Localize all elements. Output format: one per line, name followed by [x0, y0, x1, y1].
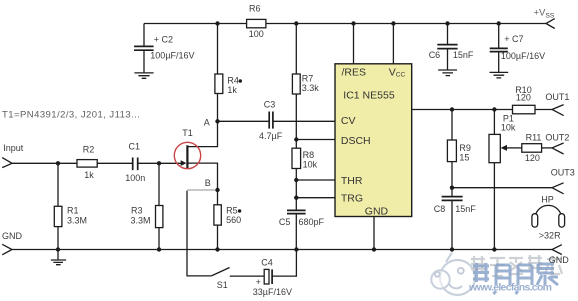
ground (C2): [134, 73, 153, 78]
resistor R3: [131, 163, 163, 249]
junction THR node: [294, 178, 298, 182]
resistor R7: [292, 74, 319, 94]
svg-text:/RES: /RES: [342, 66, 367, 78]
junction rail-/RES: [351, 21, 355, 25]
svg-text:R9: R9: [459, 143, 471, 153]
wire VCC pin: [392, 24, 394, 64]
svg-text:100: 100: [249, 29, 264, 39]
svg-text:1k: 1k: [84, 170, 94, 180]
svg-text:10k: 10k: [303, 159, 318, 169]
junction input-R1: [56, 161, 60, 165]
capacitor C8: [434, 188, 476, 250]
svg-text:Input: Input: [3, 143, 24, 153]
terminal OUT3: [551, 167, 575, 193]
wire C1 to gate node: [138, 162, 159, 164]
capacitor C1: [125, 142, 145, 183]
wire input: [12, 162, 77, 164]
wire DSCH pin: [296, 139, 335, 141]
svg-text:R2: R2: [83, 144, 95, 154]
svg-text:15nF: 15nF: [453, 50, 474, 60]
terminal OUT2: [545, 132, 569, 154]
wire R11 to OUT2: [542, 147, 552, 149]
terminal GND left: [2, 231, 23, 255]
resistor R1: [54, 163, 87, 249]
svg-text:THR: THR: [341, 175, 363, 187]
pin label VCC: [389, 66, 406, 78]
svg-text:120: 120: [525, 153, 540, 163]
potentiometer P1: [489, 110, 522, 250]
junction DSCH node: [294, 137, 298, 141]
svg-text:C4: C4: [261, 258, 273, 268]
svg-text:+V: +V: [534, 7, 547, 18]
wire supply rail left: [144, 23, 247, 25]
svg-text:3.3M: 3.3M: [131, 215, 151, 225]
svg-text:R6: R6: [249, 4, 261, 14]
resistor R10: [513, 85, 536, 114]
svg-text:15: 15: [459, 152, 469, 162]
ground (input): [51, 250, 66, 265]
capacitor C5: [279, 210, 325, 227]
wire R10 to OUT1: [535, 109, 552, 111]
junction gate-R3: [157, 161, 161, 165]
resistor R4: [215, 74, 242, 95]
svg-text:OUT1: OUT1: [545, 92, 569, 102]
junction rail-IC GND: [372, 247, 376, 251]
resistor R6: [247, 4, 266, 39]
svg-text:GND: GND: [365, 205, 389, 217]
svg-text:+ C2: + C2: [154, 35, 173, 45]
svg-text:CC: CC: [396, 71, 406, 78]
svg-text:OUT2: OUT2: [545, 132, 569, 142]
switch S1: [211, 268, 229, 291]
ground (C7): [490, 72, 509, 78]
resistor R2: [77, 144, 97, 180]
svg-text:+ C7: + C7: [504, 34, 523, 44]
svg-text:560: 560: [226, 215, 241, 225]
capacitor C6: [429, 24, 474, 70]
svg-text:+: +: [256, 277, 261, 287]
wire output pin3: [412, 109, 513, 111]
svg-text:CV: CV: [341, 115, 356, 127]
wire node B to S1 (gray): [187, 189, 215, 191]
wire R7 to R8: [295, 94, 297, 148]
svg-text:4.7µF: 4.7µF: [259, 131, 283, 141]
junction rail-R3: [157, 247, 161, 251]
svg-text:OUT3: OUT3: [551, 167, 575, 177]
svg-text:C6: C6: [429, 50, 441, 60]
junction rail-ground: [56, 247, 60, 251]
resistor R11: [522, 132, 542, 163]
junction rail-R5: [215, 247, 219, 251]
svg-text:R3: R3: [131, 206, 143, 216]
svg-text:R1: R1: [67, 206, 79, 216]
resistor R9: [447, 110, 471, 188]
wire IC GND pin: [373, 217, 375, 250]
svg-text:T1: T1: [182, 128, 193, 138]
highlight circle around T1: [174, 142, 200, 168]
wire R8 to C5: [295, 169, 297, 211]
wire /RES pin: [353, 24, 355, 64]
wire TRG pin: [296, 197, 335, 199]
junction TRG node: [294, 196, 298, 200]
svg-text:C3: C3: [264, 100, 276, 110]
wire supply rail right: [266, 23, 546, 25]
junction rail-C5: [294, 247, 298, 251]
svg-text:GND: GND: [2, 231, 23, 241]
junction rail-C8: [450, 247, 454, 251]
wire rail to R4: [217, 24, 219, 75]
svg-text:A: A: [204, 118, 210, 128]
headphone icon HP: [532, 194, 565, 240]
IC1 NE555: [335, 64, 412, 218]
svg-text:>32R: >32R: [539, 230, 561, 240]
terminal OUT1: [545, 92, 569, 116]
svg-text:1k: 1k: [227, 85, 237, 95]
junction rail-R7: [294, 21, 298, 25]
junction pin3-P1: [492, 107, 496, 111]
svg-text:SS: SS: [546, 12, 555, 19]
node B: [205, 178, 220, 192]
svg-text:DSCH: DSCH: [341, 135, 371, 147]
svg-text:120: 120: [516, 93, 531, 103]
resistor R8: [292, 148, 318, 169]
svg-text:C8: C8: [434, 204, 446, 214]
junction rail-C7: [497, 21, 501, 25]
svg-text:3.3M: 3.3M: [67, 215, 87, 225]
resistor R5: [214, 190, 241, 250]
wire S1 branch: [187, 191, 211, 276]
svg-text:C1: C1: [129, 142, 141, 152]
svg-text:680pF: 680pF: [299, 217, 325, 227]
capacitor C7: [490, 24, 545, 73]
wire rail to R7: [295, 24, 297, 75]
wire gate: [159, 162, 181, 164]
svg-text:HP: HP: [541, 194, 554, 204]
junction R9-C8-OUT3: [450, 186, 454, 190]
wire ground rail: [12, 249, 552, 251]
capacitor C4: [253, 258, 292, 297]
svg-text:S1: S1: [217, 280, 228, 290]
wire C4 to ground rail: [272, 250, 296, 277]
capacitor C2: [134, 24, 195, 73]
svg-text:V: V: [389, 66, 396, 78]
terminal Input: [2, 143, 24, 168]
wire R2 to C1: [97, 162, 132, 164]
wire THR pin: [296, 179, 335, 181]
svg-text:R11: R11: [526, 132, 542, 142]
svg-text:C5: C5: [279, 217, 291, 227]
svg-text:10k: 10k: [501, 122, 516, 132]
svg-text:100µF/16V: 100µF/16V: [150, 51, 194, 61]
svg-text:3.3k: 3.3k: [302, 83, 320, 93]
wire OUT3: [452, 187, 552, 189]
wire C3 to CV pin: [273, 120, 335, 122]
ground (C6): [438, 70, 457, 76]
svg-text:100µF/16V: 100µF/16V: [501, 51, 545, 61]
svg-text:IC1 NE555: IC1 NE555: [343, 89, 395, 101]
capacitor C3: [259, 100, 283, 141]
junction rail-C6: [445, 21, 449, 25]
svg-text:www.elecfans.com: www.elecfans.com: [468, 282, 552, 294]
wire C5 to ground rail: [295, 214, 297, 250]
svg-text:33µF/16V: 33µF/16V: [253, 287, 292, 297]
junction rail-P1: [492, 247, 496, 251]
junction pin3-R9: [450, 107, 454, 111]
svg-text:B: B: [205, 178, 211, 188]
terminal GND right: [549, 245, 570, 265]
svg-text:T1=PN4391/2/3, J201, J113...: T1=PN4391/2/3, J201, J113...: [2, 110, 140, 121]
node A: [204, 118, 220, 128]
svg-text:TRG: TRG: [341, 192, 363, 204]
svg-text:100n: 100n: [125, 173, 145, 183]
wire R4 to node A: [217, 94, 219, 122]
wire S1 to C4: [230, 275, 264, 277]
wire node A to C3: [218, 120, 270, 122]
junction rail-R4: [215, 21, 219, 25]
svg-text:15nF: 15nF: [455, 204, 476, 214]
svg-text:GND: GND: [549, 255, 570, 265]
junction rail-VCC: [391, 21, 395, 25]
transistor T1 (JFET): [181, 121, 218, 190]
terminal +VSS: [534, 7, 555, 28]
